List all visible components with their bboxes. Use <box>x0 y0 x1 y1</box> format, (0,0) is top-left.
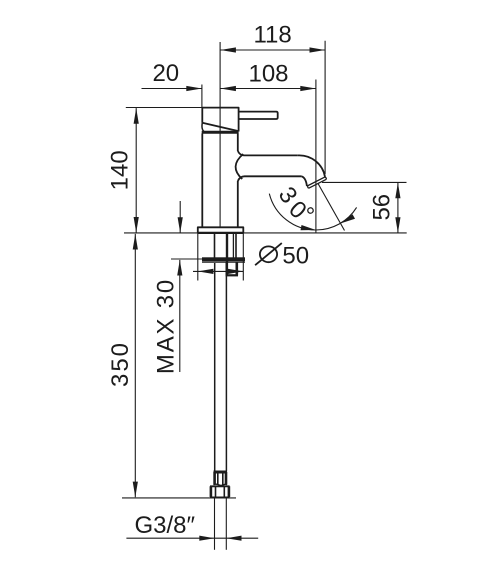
extension line dia50 right <box>242 234 244 281</box>
mounting nut <box>226 262 238 275</box>
svg-text:140: 140 <box>106 150 133 190</box>
bottom reference line <box>122 497 236 499</box>
svg-text:108: 108 <box>248 60 288 87</box>
lever handle <box>239 112 278 119</box>
extension line G38 left <box>214 498 216 550</box>
svg-text:350: 350 <box>107 341 134 387</box>
washer <box>202 257 245 261</box>
extension line 118 right <box>324 41 326 174</box>
body left wall <box>201 134 203 228</box>
head cap left silhouette arc <box>202 123 204 132</box>
spout tip inner curve <box>301 176 307 186</box>
dimension 350 <box>133 234 138 497</box>
svg-text:118: 118 <box>253 22 291 49</box>
extension centerline through body <box>219 42 221 228</box>
diagonal 30 deg line <box>318 184 345 231</box>
dimension MAX 30 upper leader <box>178 201 183 233</box>
dimension G3/8 <box>126 536 258 541</box>
body right wall upper <box>237 134 239 152</box>
extension line 20 left <box>201 85 203 108</box>
base flange <box>198 227 244 233</box>
extension line 56 top <box>322 181 407 183</box>
svg-text:50: 50 <box>282 242 309 269</box>
head cap <box>202 108 238 132</box>
svg-text:G3/8″: G3/8″ <box>135 512 196 539</box>
spout top <box>238 151 298 155</box>
head cap tilt diagonal <box>202 123 238 131</box>
dimension dia 50 <box>193 269 243 274</box>
dimension 118 <box>220 47 325 52</box>
extension line 108 right / 30deg vertical reference <box>315 80 317 233</box>
arc arrowhead at vertical reference <box>301 225 316 230</box>
spout bottom <box>238 176 301 181</box>
spout elbow outer curve <box>298 155 325 177</box>
head bottom band <box>202 131 239 134</box>
faucet outline <box>198 108 327 233</box>
dimension 20 <box>142 86 202 91</box>
under counter assembly <box>215 233 237 262</box>
supply pipe <box>215 263 227 472</box>
dimension 56 <box>395 183 400 233</box>
counter surface line <box>124 232 407 234</box>
svg-text:MAX 30: MAX 30 <box>152 278 179 374</box>
extension line dia50 left <box>197 234 199 281</box>
stud second line <box>232 233 234 258</box>
diameter symbol <box>255 243 282 265</box>
aerator rim <box>307 177 326 188</box>
threaded stud thick line <box>226 233 228 262</box>
arc arrowhead at diagonal <box>340 214 355 223</box>
shank right wall <box>235 233 237 258</box>
dimension 108 <box>220 86 316 91</box>
threaded tailpiece <box>214 472 228 485</box>
dimension 140 <box>134 108 139 233</box>
svg-text:56: 56 <box>368 194 395 221</box>
dimension 30deg arc <box>269 184 356 231</box>
extension line washer top <box>171 258 202 260</box>
dimension MAX 30 lower leader <box>177 260 182 372</box>
svg-text:20: 20 <box>152 60 179 87</box>
extension line 140 top <box>126 107 203 109</box>
shank left wall <box>214 233 216 258</box>
body right wall lower <box>237 181 239 227</box>
spout body intersection curve <box>236 154 244 179</box>
hex nut <box>210 486 230 497</box>
extension line G38 right <box>225 498 227 550</box>
